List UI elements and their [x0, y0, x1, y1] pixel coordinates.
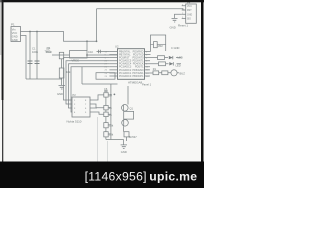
svg-text:Reset 1: Reset 1	[178, 23, 188, 27]
svg-text:GND: GND	[170, 25, 176, 29]
svg-text:PC0/ADC0: PC0/ADC0	[119, 75, 132, 78]
svg-text:VCC: VCC	[187, 6, 192, 8]
svg-text:10k: 10k	[66, 70, 71, 74]
svg-text:VCC: VCC	[12, 31, 18, 35]
svg-text:U2: U2	[115, 45, 119, 49]
svg-text:P2: P2	[73, 93, 77, 97]
svg-text:GND: GND	[121, 150, 127, 154]
svg-text:Q1: Q1	[130, 107, 134, 111]
svg-text:SIG: SIG	[187, 19, 191, 21]
svg-text:100n: 100n	[32, 50, 38, 54]
svg-text:BC547: BC547	[129, 135, 137, 139]
svg-text:VREG: VREG	[72, 59, 80, 63]
svg-text:U1: U1	[47, 46, 51, 50]
svg-text:GND: GND	[57, 92, 63, 96]
svg-text:LED: LED	[178, 56, 183, 60]
svg-text:7805: 7805	[45, 49, 51, 53]
svg-text:10k: 10k	[109, 133, 114, 137]
svg-text:GND: GND	[12, 34, 18, 38]
svg-text:LED: LED	[176, 64, 181, 68]
svg-text:PB0/ICP1: PB0/ICP1	[133, 75, 145, 78]
svg-text:10k: 10k	[109, 123, 114, 127]
svg-text:Panel 1: Panel 1	[142, 82, 152, 86]
svg-text:C10: C10	[88, 50, 93, 54]
svg-text:Nokia 5110: Nokia 5110	[67, 119, 82, 123]
svg-text:[1146x956] upic.me: [1146x956] upic.me	[85, 169, 198, 183]
svg-text:GND: GND	[12, 38, 18, 42]
svg-text:BUZ: BUZ	[180, 72, 186, 76]
svg-text:C6: C6	[104, 87, 108, 91]
svg-text:C GND: C GND	[171, 46, 179, 50]
svg-text:GND: GND	[187, 15, 192, 17]
svg-text:P1: P1	[11, 23, 15, 27]
svg-text:Vin: Vin	[12, 27, 16, 31]
svg-text:16M: 16M	[158, 44, 163, 48]
svg-text:ATMEGA8: ATMEGA8	[128, 81, 142, 85]
svg-text:RST: RST	[187, 10, 192, 12]
